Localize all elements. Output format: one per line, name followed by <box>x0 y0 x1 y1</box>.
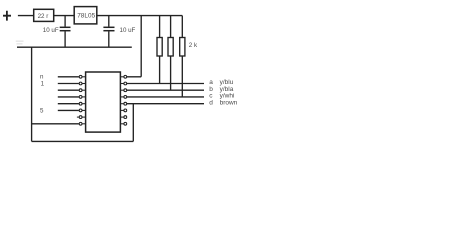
svg-text:2 k: 2 k <box>189 42 198 49</box>
U2 left pin 6 <box>79 109 85 112</box>
wire plus to R1 <box>18 15 34 17</box>
svg-text:78L05: 78L05 <box>77 13 95 20</box>
input wire 6 <box>58 109 79 111</box>
svg-text:1: 1 <box>41 80 45 87</box>
U2 left pin 5 <box>79 102 85 105</box>
resistor R3 2k <box>168 16 173 91</box>
U2 left pin 3 <box>79 89 85 92</box>
wire line c <box>127 96 204 98</box>
U2 right pin 10 <box>120 116 126 119</box>
wire U1 output top rail <box>97 15 183 17</box>
left ground rail vertical wire <box>31 47 33 141</box>
input wire 3 <box>58 89 79 91</box>
U2 right pin 9 <box>120 122 126 125</box>
resistor R1 22r <box>34 9 54 21</box>
U2 left pin 7 <box>77 116 86 119</box>
wire R1 to U1 <box>54 15 74 17</box>
svg-text:d: d <box>209 99 213 106</box>
faint print artifact near minus terminal <box>16 41 24 44</box>
U2 left pin 1 <box>79 75 85 78</box>
U2 right pin 12 <box>120 102 126 105</box>
resistor R4 2k <box>180 16 185 97</box>
resistor R2 2k <box>157 16 162 84</box>
capacitor C1 10uF <box>60 16 71 48</box>
wire line a <box>127 83 204 85</box>
U2 left pin 4 <box>79 96 85 99</box>
U2 right pin 14 <box>120 89 126 92</box>
input wire 5 <box>58 103 79 105</box>
plus terminal <box>3 11 11 21</box>
wire U2 pin 16 to supply rail <box>127 16 141 77</box>
IC U2 body <box>86 72 121 132</box>
wire line d <box>127 103 204 105</box>
regulator U1 78L05 <box>74 7 97 24</box>
U2 left pin 8 <box>79 122 85 125</box>
bottom ground wire <box>32 140 134 142</box>
wire ground to U2 pin 8 <box>32 123 79 125</box>
capacitor C2 10uF <box>103 16 114 48</box>
input wire 1 <box>58 76 79 78</box>
svg-text:10 uF: 10 uF <box>120 27 136 34</box>
svg-text:brown: brown <box>220 99 238 106</box>
input wire 2 <box>58 83 79 85</box>
U2 right pin 15 <box>120 82 126 85</box>
U2 right pin 13 <box>120 96 126 99</box>
wire node d branch vertical <box>132 104 134 142</box>
svg-text:10 uF: 10 uF <box>43 27 59 34</box>
U2 right pin 16 <box>120 75 126 78</box>
svg-text:22 r: 22 r <box>38 13 49 20</box>
ground rail <box>17 46 132 48</box>
svg-text:5: 5 <box>40 107 44 114</box>
wire line b <box>127 89 204 91</box>
U2 right pin 11 <box>120 109 126 112</box>
U2 left pin 2 <box>79 82 85 85</box>
input wire 4 <box>58 96 79 98</box>
